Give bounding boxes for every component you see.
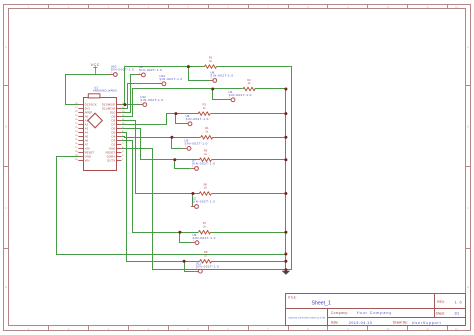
svg-text:SIN-002T-1.0: SIN-002T-1.0 [229, 93, 252, 97]
svg-text:1/1: 1/1 [454, 312, 459, 316]
svg-text:A: A [467, 45, 469, 49]
svg-text:VIN: VIN [85, 159, 90, 163]
wire D4 to R4 row [122, 137, 201, 138]
svg-text:1: 1 [196, 269, 197, 271]
svg-text:1: 1 [192, 204, 193, 206]
svg-text:Company:: Company: [331, 311, 349, 315]
svg-text:Your Company: Your Company [357, 311, 393, 315]
wire left GND pin loop to bus [57, 157, 286, 255]
svg-text:1: 1 [229, 97, 230, 99]
svg-text:D1/TX: D1/TX [107, 159, 115, 163]
wire R6 to right bus [212, 193, 286, 195]
wire R5 to right bus [212, 159, 286, 161]
svg-text:2019-04-10: 2019-04-10 [349, 321, 372, 325]
svg-text:Sheet_1: Sheet_1 [312, 301, 331, 307]
wire D10 riser to U9 [122, 75, 140, 113]
svg-text:SIN-002T-1.0: SIN-002T-1.0 [140, 98, 163, 102]
wire stub to U3 [172, 138, 184, 149]
svg-text:1: 1 [141, 102, 142, 104]
svg-text:C: C [5, 206, 7, 210]
svg-text:UserSupport: UserSupport [412, 321, 442, 325]
wire D6 riser to R5 row [122, 129, 200, 160]
svg-text:SIN-002T-1.0: SIN-002T-1.0 [192, 200, 215, 204]
wire stub to U4 [213, 89, 228, 100]
resistor R2 [243, 78, 255, 91]
svg-text:1: 1 [111, 72, 112, 74]
svg-text:1: 1 [185, 146, 186, 148]
wire D3 riser to R7 row [122, 141, 199, 233]
svg-text:SIN-002T-1.0: SIN-002T-1.0 [185, 142, 208, 146]
svg-text:B: B [5, 124, 7, 128]
U1 top notch [88, 94, 100, 98]
svg-text:VCC: VCC [91, 63, 100, 67]
connector U3 SIN-002T-1.0 [183, 139, 207, 151]
wire right GND pin to ground bus bottom [122, 149, 286, 270]
wire group [57, 67, 292, 272]
U1 reference designator label [93, 85, 118, 92]
resistor R5 [200, 149, 212, 162]
ground symbol [282, 270, 291, 275]
svg-text:easyeda.com/editor.drawn.by.a.: easyeda.com/editor.drawn.by.a.link [288, 317, 326, 320]
U1 diamond logo [88, 113, 102, 128]
wire D5 riser to R8 row [122, 133, 200, 262]
resistor R7 [199, 221, 211, 234]
svg-text:1: 1 [160, 81, 161, 83]
svg-text:1: 1 [211, 78, 212, 80]
connector U10 SIN-002T-1.0 [110, 65, 134, 77]
wire tap to U12 [125, 104, 141, 106]
junction dots [123, 65, 287, 271]
svg-text:1: 1 [193, 240, 194, 242]
svg-text:1: 1 [139, 72, 140, 74]
connector U11 SIN-002T-1.0 [195, 261, 219, 273]
wire D12/MISO riser to R1 row [122, 67, 189, 105]
svg-text:ARDUINO_NANO: ARDUINO_NANO [93, 88, 118, 92]
svg-text:SIN-002T-1.0: SIN-002T-1.0 [196, 264, 219, 268]
title block [286, 294, 466, 326]
connector U8 SIN-002T-1.0 [209, 71, 233, 83]
wire R2 junction to resistor [213, 88, 243, 90]
wire R1 junction to resistor [189, 66, 205, 68]
svg-text:SIN-002T-1.0: SIN-002T-1.0 [193, 236, 216, 240]
resistor R4 [201, 126, 213, 139]
svg-text:SIN-002T-1.0: SIN-002T-1.0 [192, 162, 215, 166]
svg-text:Sheet:: Sheet: [436, 312, 445, 316]
wire R3 to right bus [211, 113, 286, 115]
resistor R6 [199, 182, 211, 195]
wire D11/MOSI riser to U13 [122, 84, 161, 109]
resistor R1 [205, 56, 217, 69]
connector U5 SIN-002T-1.0 [184, 114, 208, 126]
wire stub to U2 [192, 194, 194, 207]
wire D13/SCK to VCC rail and U10 [66, 75, 112, 105]
resistor R3 [198, 103, 210, 116]
wire stub to U6 [180, 233, 192, 243]
wire R8 to right bus [212, 261, 286, 263]
connector U6 SIN-002T-1.0 [191, 233, 215, 245]
connector U12 SIN-002T-1.0 [139, 95, 163, 107]
connector U4 SIN-002T-1.0 [227, 90, 251, 102]
connector U13 SIN-002T-1.0 [158, 74, 182, 86]
wire D7 to R3 row [122, 114, 199, 125]
svg-text:SIN-002T-1.0: SIN-002T-1.0 [186, 117, 209, 121]
power flag VCC [91, 63, 100, 75]
wire R1 outer loop to ground node [217, 67, 292, 270]
svg-text:Date:: Date: [331, 321, 339, 325]
svg-text:B: B [467, 124, 469, 128]
svg-text:1.0: 1.0 [455, 300, 463, 304]
svg-text:1: 1 [186, 121, 187, 123]
svg-text:SIN-002T-1.0: SIN-002T-1.0 [159, 77, 182, 81]
svg-text:SIN-002T-1.0: SIN-002T-1.0 [139, 68, 162, 72]
svg-text:D: D [467, 285, 469, 289]
resistor R8 [200, 250, 212, 263]
svg-text:Drawn By:: Drawn By: [393, 321, 408, 325]
connector U2 SIN-002T-1.0 [191, 197, 215, 209]
svg-text:A: A [5, 45, 7, 49]
IC U1 ARDUINO_NANO body [84, 94, 117, 171]
wire R2 to right bus [255, 88, 286, 90]
svg-text:D: D [5, 285, 7, 289]
svg-text:SIN-002T-1.0: SIN-002T-1.0 [210, 74, 233, 78]
wire right vertical bus [285, 89, 287, 270]
svg-text:SIN-002T-1.0: SIN-002T-1.0 [111, 68, 134, 72]
wire stub to U11 [185, 262, 195, 272]
wire D8 riser to R6 row [122, 121, 200, 194]
svg-text:1: 1 [192, 166, 193, 168]
connector U7 SIN-002T-1.0 [191, 159, 215, 171]
U1 right pins with numbers and names [102, 103, 126, 163]
connector U9 SIN-002T-1.0 [138, 65, 162, 77]
wire R7 to right bus [211, 232, 286, 234]
svg-text:C: C [467, 206, 469, 210]
wire stub to U5 [176, 114, 185, 124]
wire stub to U7 [175, 160, 191, 169]
wire R4 to right bus [213, 137, 286, 139]
wire D9 riser to R2 row [122, 89, 213, 117]
wire stub to U8 [189, 67, 210, 81]
U1 left pins with numbers and names [75, 103, 97, 163]
svg-text:REV:: REV: [437, 300, 444, 304]
svg-text:TITLE:: TITLE: [288, 295, 297, 299]
